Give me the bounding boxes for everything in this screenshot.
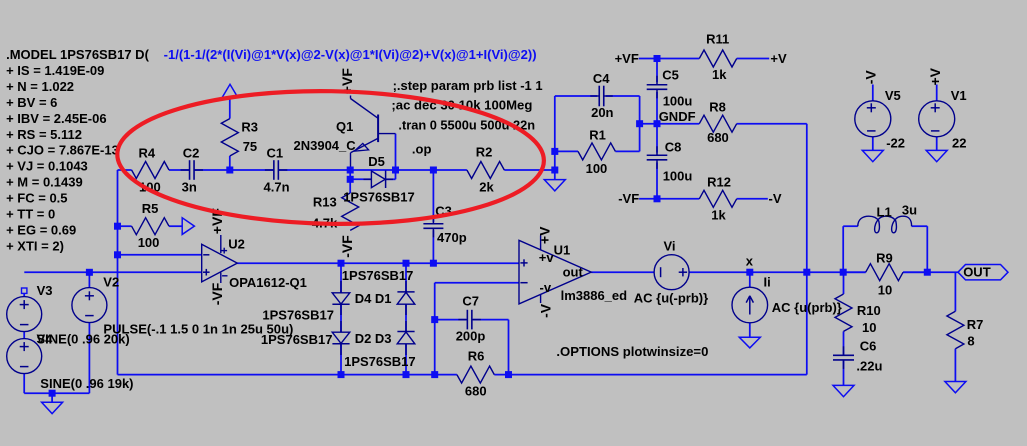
svg-text:SINE(0 .96 20k): SINE(0 .96 20k) (37, 332, 130, 347)
svg-text:D4 D1: D4 D1 (355, 291, 392, 306)
svg-text:.op: .op (412, 142, 432, 157)
svg-text:680: 680 (465, 383, 487, 398)
svg-text:V3: V3 (37, 283, 53, 298)
svg-text:C7: C7 (462, 293, 479, 308)
svg-text:4.7n: 4.7n (264, 180, 290, 195)
svg-text:20n: 20n (591, 105, 613, 120)
svg-text:+ IBV = 2.45E-06: + IBV = 2.45E-06 (6, 111, 106, 126)
svg-text:+ RS = 5.112: + RS = 5.112 (6, 127, 82, 142)
svg-text:+ XTI = 2): + XTI = 2) (6, 238, 64, 253)
svg-text:-22: -22 (886, 136, 905, 151)
svg-text:+v: +v (539, 250, 555, 265)
svg-text:Q1: Q1 (336, 119, 353, 134)
svg-text:-V: -V (537, 303, 553, 318)
svg-text:R12: R12 (707, 174, 731, 189)
svg-text:GNDF: GNDF (659, 109, 696, 124)
svg-text:100: 100 (586, 161, 608, 176)
svg-text:U2: U2 (228, 237, 245, 252)
svg-text:+ VJ = 0.1043: + VJ = 0.1043 (6, 159, 88, 174)
svg-text:AC {u(prb)}: AC {u(prb)} (772, 300, 842, 315)
svg-text:+ FC = 0.5: + FC = 0.5 (6, 191, 67, 206)
svg-text:100u: 100u (663, 94, 693, 109)
svg-text:470p: 470p (437, 230, 467, 245)
svg-text:D5: D5 (368, 154, 385, 169)
svg-text:lm3886_ed: lm3886_ed (561, 288, 628, 303)
svg-text:2N3904_C: 2N3904_C (294, 138, 357, 153)
svg-text:1PS76SB17: 1PS76SB17 (344, 354, 416, 369)
svg-text:U1: U1 (554, 242, 571, 257)
svg-text:D2 D3: D2 D3 (355, 331, 392, 346)
svg-text:8: 8 (967, 334, 974, 349)
svg-text:+ N = 1.022: + N = 1.022 (6, 79, 74, 94)
svg-text:1k: 1k (711, 208, 726, 223)
svg-text:out: out (563, 265, 584, 280)
svg-text:R1: R1 (589, 128, 606, 143)
svg-text:+VF: +VF (615, 51, 639, 66)
svg-text:+V: +V (770, 51, 787, 66)
svg-text:R3: R3 (241, 120, 258, 135)
svg-text:-1/(1-1/(2*(I(Vi)@1*V(x)@2-V(x: -1/(1-1/(2*(I(Vi)@1*V(x)@2-V(x)@1*I(Vi)@… (164, 47, 537, 62)
svg-text:-V: -V (769, 191, 782, 206)
svg-text:1PS76SB17: 1PS76SB17 (343, 190, 415, 205)
svg-text:L1: L1 (877, 205, 892, 220)
svg-text:+V: +V (537, 226, 553, 244)
svg-text:R9: R9 (876, 250, 893, 265)
svg-text:+ M = 0.1439: + M = 0.1439 (6, 175, 83, 190)
svg-text:R11: R11 (706, 31, 729, 46)
svg-text:V5: V5 (885, 88, 901, 103)
svg-text:680: 680 (707, 130, 729, 145)
svg-text:R2: R2 (476, 145, 493, 160)
svg-text:-VF: -VF (209, 282, 225, 305)
svg-text:C4: C4 (593, 71, 610, 86)
svg-text:1PS76SB17: 1PS76SB17 (262, 308, 334, 323)
svg-text:-VF: -VF (618, 191, 639, 206)
svg-text:+ TT = 0: + TT = 0 (6, 207, 55, 222)
svg-text:C6: C6 (860, 339, 877, 354)
svg-text:.OPTIONS plotwinsize=0: .OPTIONS plotwinsize=0 (556, 344, 708, 359)
svg-text:R10: R10 (857, 303, 881, 318)
svg-text:Ii: Ii (764, 274, 771, 289)
svg-text:OPA1612-Q1: OPA1612-Q1 (229, 275, 307, 290)
svg-text:V1: V1 (951, 88, 967, 103)
svg-text:100: 100 (138, 235, 160, 250)
svg-text:+ BV = 6: + BV = 6 (6, 95, 57, 110)
svg-text:R4: R4 (139, 146, 156, 161)
svg-text:+ EG = 0.69: + EG = 0.69 (6, 222, 76, 237)
svg-text:-v: -v (540, 280, 552, 295)
svg-text:AC {u(-prb)}: AC {u(-prb)} (634, 291, 708, 306)
svg-text:C5: C5 (662, 68, 679, 83)
svg-text:V2: V2 (103, 274, 119, 289)
svg-text:200p: 200p (456, 328, 486, 343)
svg-text:1PS76SB17: 1PS76SB17 (342, 268, 414, 283)
svg-text:R8: R8 (709, 100, 726, 115)
svg-text:2k: 2k (479, 179, 494, 194)
svg-text:+V: +V (927, 67, 943, 85)
svg-text:R5: R5 (142, 201, 159, 216)
svg-text:R7: R7 (967, 317, 984, 332)
svg-text:-V: -V (862, 70, 878, 85)
svg-text:+ CJO = 7.867E-13: + CJO = 7.867E-13 (6, 143, 119, 158)
svg-text:1k: 1k (712, 67, 727, 82)
svg-text:x: x (746, 254, 754, 269)
svg-text:.MODEL 1PS76SB17 D(: .MODEL 1PS76SB17 D( (6, 47, 149, 62)
svg-text:.22u: .22u (856, 359, 882, 374)
svg-text:+ IS = 1.419E-09: + IS = 1.419E-09 (6, 63, 104, 78)
svg-text:R13: R13 (313, 194, 337, 209)
svg-text:3n: 3n (182, 180, 197, 195)
svg-text:;.step param prb list -1 1: ;.step param prb list -1 1 (393, 78, 543, 93)
svg-text:3u: 3u (902, 203, 917, 218)
svg-text:OUT: OUT (963, 264, 991, 279)
svg-text:C2: C2 (183, 146, 200, 161)
svg-text:1PS76SB17: 1PS76SB17 (261, 332, 333, 347)
svg-text:100u: 100u (663, 168, 693, 183)
svg-text:SINE(0 .96 19k): SINE(0 .96 19k) (40, 376, 133, 391)
svg-text:10: 10 (862, 320, 876, 335)
svg-text:-VF: -VF (339, 235, 355, 258)
svg-text:75: 75 (243, 139, 257, 154)
svg-text:22: 22 (952, 136, 966, 151)
svg-text:10: 10 (878, 282, 892, 297)
svg-text:R6: R6 (468, 348, 485, 363)
svg-text:C8: C8 (665, 140, 682, 155)
svg-text:C1: C1 (267, 146, 284, 161)
svg-text:Vi: Vi (664, 239, 676, 254)
